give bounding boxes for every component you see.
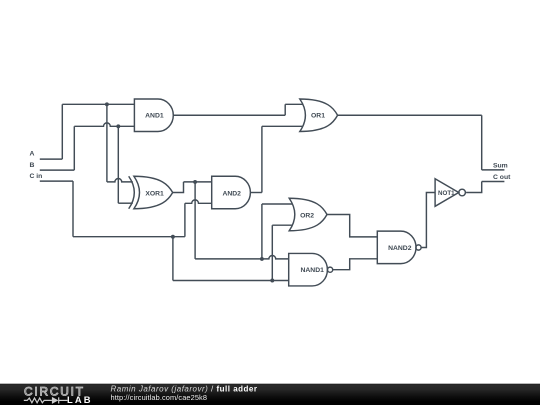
wire riser to OR1 in1 <box>284 104 286 115</box>
wire B stub <box>40 169 75 171</box>
wire C riser down <box>72 181 74 237</box>
wire XOR out riser down <box>194 182 196 259</box>
svg-text:AND2: AND2 <box>222 190 241 197</box>
wire NAND1 in1 row (hop over OR2 in2 riser) <box>195 255 289 258</box>
wire C branch riser down <box>172 237 174 281</box>
svg-text:OR2: OR2 <box>300 212 314 219</box>
nand-gate NAND1 body <box>289 253 328 286</box>
svg-text:OR1: OR1 <box>311 113 325 120</box>
wire riser to AND2 in2 <box>184 203 186 236</box>
wire OR1 in2 row <box>262 125 303 127</box>
or-gate OR2 <box>289 198 327 231</box>
wire AND2 in2 row (hop over XOR out riser) <box>185 200 212 203</box>
wire NOT1 output <box>466 182 482 193</box>
wire A riser <box>61 104 63 159</box>
junction dot on NAND1 in2 row <box>270 279 274 283</box>
wire OR2 output <box>327 215 377 237</box>
wire B riser <box>73 126 75 170</box>
logo resistor + diode symbol <box>24 397 68 403</box>
wire C out row <box>482 181 505 183</box>
and-gate AND2 <box>212 176 251 209</box>
svg-text:NAND1: NAND1 <box>300 267 324 274</box>
junction dot on XOR out row <box>193 180 197 184</box>
wire AND2 out riser to OR1 in2 <box>261 126 263 192</box>
svg-text:http://circuitlab.com/cae25k8: http://circuitlab.com/cae25k8 <box>111 393 208 402</box>
wire NAND1 output <box>333 259 378 270</box>
wire OR2 in1 riser <box>261 204 263 259</box>
svg-text:B: B <box>30 162 35 169</box>
wire AND2 output stub <box>250 192 262 194</box>
wire B row to AND1 (hop over A branch) <box>74 123 134 126</box>
nand-gate NAND2 bubble <box>416 245 421 250</box>
wire Sum riser <box>481 115 483 170</box>
xor-gate XOR1 body <box>134 176 173 209</box>
wire Sum row <box>482 169 505 171</box>
svg-text:C in: C in <box>30 173 43 180</box>
svg-text:C out: C out <box>493 174 511 181</box>
wire OR1 in1 row <box>285 103 302 105</box>
junction dot on C branch row <box>171 235 175 239</box>
svg-text:XOR1: XOR1 <box>145 190 164 197</box>
wire NAND1 in2 row <box>173 280 289 282</box>
wire XOR1 in2 row <box>118 202 133 204</box>
wire C in stub <box>40 180 73 182</box>
svg-text:AND1: AND1 <box>145 113 164 120</box>
svg-text:Sum: Sum <box>493 163 508 170</box>
wire XOR1 output stub <box>173 182 184 193</box>
svg-text:NOT1: NOT1 <box>438 190 455 197</box>
wire OR2 in2 row <box>272 224 292 226</box>
wire OR2 in2 riser <box>271 225 273 280</box>
not-gate NOT1 bubble <box>459 189 466 196</box>
or-gate OR1 <box>300 99 338 132</box>
junction dot on B row <box>116 124 120 128</box>
svg-text:NAND2: NAND2 <box>388 245 412 252</box>
wire NAND2 output <box>421 193 435 248</box>
logo diode triangle <box>52 397 59 404</box>
nand-gate NAND1 bubble <box>328 267 333 272</box>
svg-text:LAB: LAB <box>67 394 93 405</box>
wire B branch riser to XOR1 <box>117 126 119 203</box>
wire OR2 in1 row <box>262 203 293 205</box>
wire XOR1 in1 row (hop over B branch) <box>107 179 133 182</box>
wire A row to AND1 <box>62 103 134 105</box>
and-gate AND1 <box>134 99 173 132</box>
wire A branch riser to XOR1 <box>106 104 108 182</box>
wire XOR1 out row to AND2 in1 <box>184 181 212 183</box>
wire C branch row <box>73 236 185 238</box>
svg-text:A: A <box>30 150 35 157</box>
junction dot on A row <box>105 102 109 106</box>
junction dot on NAND1 in1 row <box>260 257 264 261</box>
wire AND1 output row <box>173 114 285 116</box>
nand-gate NAND2 body <box>377 231 416 264</box>
xor-gate XOR1 extra input arc <box>129 176 135 209</box>
wire OR1 output long row <box>338 114 482 116</box>
wire A stub <box>40 158 63 160</box>
not-gate NOT1 triangle <box>435 179 459 207</box>
